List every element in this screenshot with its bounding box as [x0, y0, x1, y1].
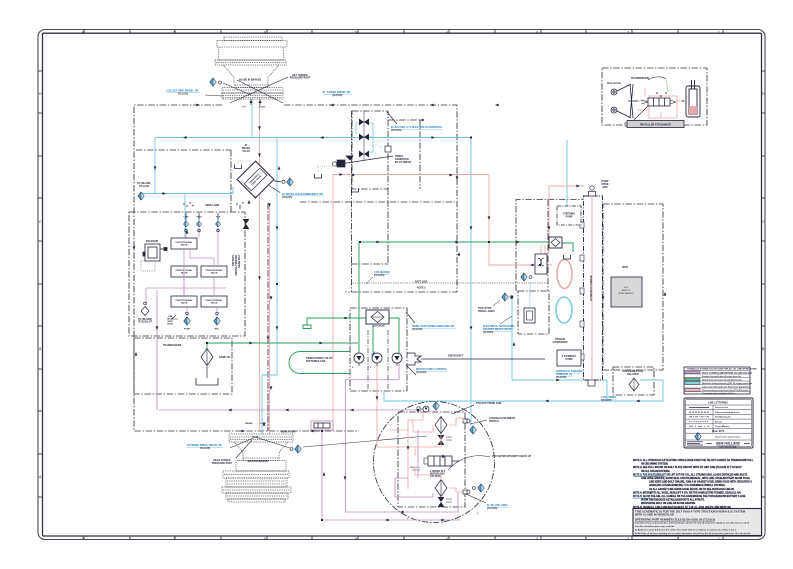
svg-text:MASTER BRAKES: MASTER BRAKES: [248, 460, 269, 463]
svg-text:SWITCH: SWITCH: [489, 420, 499, 423]
svg-text:Use this oil within parts only: Use this oil within parts only seals kit…: [635, 525, 675, 528]
svg-text:SEAL KITS: SEAL KITS: [712, 430, 725, 433]
svg-text:6: 6: [264, 537, 266, 541]
svg-text:SWIVEL JOINT: SWIVEL JOINT: [478, 310, 495, 313]
svg-text:Suction line and lube oil retu: Suction line and lube oil return hose ki…: [702, 375, 741, 378]
svg-text:BALANCE: BALANCE: [627, 373, 639, 376]
svg-text:Oil pressure regeneration: Oil pressure regeneration: [715, 436, 741, 439]
svg-text:BRAKE: BRAKE: [245, 422, 253, 425]
svg-text:8: 8: [82, 30, 84, 34]
svg-text:(713,015): (713,015): [483, 331, 493, 334]
svg-text:CONVERTER: CONVERTER: [552, 341, 567, 344]
svg-text:SAME OIL: SAME OIL: [219, 356, 231, 359]
svg-text:ATTACHMENTS: ATTACHMENTS: [618, 292, 634, 295]
svg-text:ODES LAND: ODES LAND: [205, 204, 219, 207]
svg-text:WITH A LUBE IN VEHICULAR: WITH A LUBE IN VEHICULAR: [635, 513, 674, 517]
svg-text:4: 4: [446, 537, 448, 541]
svg-text:PUMP: PUMP: [566, 216, 573, 219]
svg-text:LINE HOSE GROUPS, SHOW SEAL ST: LINE HOSE GROUPS, SHOW SEAL STRUT/LINE/S…: [641, 477, 750, 480]
svg-text:C/A 15.5L: C/A 15.5L: [430, 475, 441, 478]
svg-text:SOLENOID: SOLENOID: [146, 240, 159, 243]
svg-text:LINE LETTERING: LINE LETTERING: [708, 401, 728, 404]
svg-text:1: 1: [718, 537, 720, 541]
svg-text:(713,015): (713,015): [412, 328, 422, 331]
svg-text:NOTE 3: THE BOLT/LINE/LIFT OR: NOTE 3: THE BOLT/LINE/LIFT OR LIFT KIT P…: [633, 473, 748, 476]
svg-text:CNH INDUSTRIAL: CNH INDUSTRIAL: [719, 445, 737, 448]
svg-text:PROPORTIONAL: PROPORTIONAL: [206, 299, 223, 302]
svg-text:LOW: LOW: [184, 217, 189, 219]
svg-text:2: 2: [627, 537, 629, 541]
svg-text:8: 8: [82, 537, 84, 541]
svg-text:OPERATING PART NUMBER (713,015: OPERATING PART NUMBER (713,015) ON A/OIL…: [635, 518, 715, 522]
svg-text:(713,015): (713,015): [139, 185, 149, 188]
svg-text:Pressure return oil all hose l: Pressure return oil all hose line (713,0…: [702, 389, 749, 392]
svg-text:(713,015): (713,015): [178, 93, 188, 96]
svg-text:PROPORTIONAL: PROPORTIONAL: [206, 269, 223, 272]
svg-text:HYDRAULIC CHARGE: HYDRAULIC CHARGE: [590, 275, 593, 301]
svg-text:BATT-LINE: BATT-LINE: [415, 281, 428, 284]
svg-text:3: 3: [536, 537, 538, 541]
svg-text:ON JIB SWING SYSTEM.: ON JIB SWING SYSTEM.: [641, 464, 669, 466]
svg-text:PTO WATER INTERMIT CHECK UP: PTO WATER INTERMIT CHECK UP: [492, 455, 531, 458]
svg-text:AS ALL GASKET LINE SHOW GOOD D: AS ALL GASKET LINE SHOW GOOD DETAIL ON T…: [649, 488, 735, 491]
svg-text:HIGH: HIGH: [196, 217, 202, 219]
svg-text:AC line: AC line: [715, 420, 723, 423]
svg-text:1: 1: [718, 30, 720, 34]
svg-text:2: 2: [627, 30, 629, 34]
svg-text:PIN PULLER ATTACHMENT: PIN PULLER ATTACHMENT: [640, 123, 672, 126]
svg-text:PROPORTIONAL: PROPORTIONAL: [176, 241, 193, 244]
svg-text:7: 7: [173, 537, 175, 541]
svg-text:Rod end dia: Rod end dia: [607, 82, 621, 85]
svg-text:4: 4: [446, 30, 448, 34]
svg-text:(MM kg): (MM kg): [412, 470, 420, 472]
svg-text:BRAKE: BRAKE: [258, 106, 266, 109]
svg-text:BLADE IN BRAKES: BLADE IN BRAKES: [239, 79, 261, 82]
svg-text:PILOT MOUNT: PILOT MOUNT: [395, 161, 412, 164]
svg-text:VALVE: VALVE: [242, 150, 250, 153]
svg-text:At Bolted on packed A hoses li: At Bolted on packed A hoses line within …: [635, 528, 737, 531]
svg-text:GEAR BOX: GEAR BOX: [238, 255, 241, 268]
svg-text:WRAP/HOSE BOLT ON LINE 4/8 SHO: WRAP/HOSE BOLT ON LINE 4/8 SHOW GIB/JOIN…: [641, 502, 696, 505]
svg-text:5: 5: [355, 537, 357, 541]
svg-text:BTS: BTS: [624, 287, 629, 289]
svg-text:Pressure line: Pressure line: [715, 406, 729, 409]
svg-text:AUX VALVE: AUX VALVE: [373, 325, 385, 328]
svg-text:IDENTIFY: IDENTIFY: [621, 290, 631, 292]
svg-text:LEFT: LEFT: [241, 107, 247, 109]
svg-text:Torque/Battery: Torque/Battery: [715, 425, 730, 428]
svg-text:LINE KEEP LINE-BOLT ON/LINE, J: LINE KEEP LINE-BOLT ON/LINE, JOIN A 90 G…: [649, 481, 752, 484]
svg-text:(713,015): (713,015): [487, 507, 497, 510]
svg-text:NOTE 5: NOTE 5: [417, 287, 426, 290]
svg-text:DRIVESHAFT: DRIVESHAFT: [448, 355, 464, 358]
svg-text:VALVE: VALVE: [181, 302, 188, 305]
svg-text:REC: REC: [215, 329, 220, 331]
svg-text:HOSE: HOSE: [167, 324, 174, 326]
svg-text:(713,015): (713,015): [556, 376, 566, 379]
svg-text:VALVE: VALVE: [211, 272, 218, 275]
svg-text:6: 6: [264, 30, 266, 34]
svg-text:7: 7: [173, 30, 175, 34]
svg-text:NOTE 4: INTERMITTI ALL HOSE, S: NOTE 4: INTERMITTI ALL HOSE, SEAL/LIFT 4…: [633, 491, 742, 494]
svg-text:VALVE: VALVE: [211, 302, 218, 305]
svg-text:GBX: GBX: [602, 186, 608, 189]
svg-text:PROPORTIONAL: PROPORTIONAL: [176, 299, 193, 302]
svg-text:NOTE 5: SHOW THE GIB, ALL HAND: NOTE 5: SHOW THE GIB, ALL HANDLE ON THE …: [633, 495, 746, 498]
svg-text:NEW HOLLAND: NEW HOLLAND: [716, 442, 741, 446]
svg-text:ON ALL SPECIFICATIONS.: ON ALL SPECIFICATIONS.: [641, 470, 671, 473]
svg-text:SHOW GIB/THE/HOSE DETAIL/LINE/: SHOW GIB/THE/HOSE DETAIL/LINE/PORTS ALL …: [641, 499, 705, 502]
svg-text:At All bolts of all lines sho: At All bolts of all lines showing on see…: [635, 532, 752, 535]
svg-text:BATTERIES LINE: BATTERIES LINE: [306, 360, 326, 363]
svg-text:Hydraulic charge/steering (OR_: Hydraulic charge/steering (OR_A) supply …: [702, 382, 753, 385]
svg-text:PILOT CONTROL AND RETURN OIL L: PILOT CONTROL AND RETURN OIL LINE (713,0…: [702, 371, 752, 374]
svg-text:Swing drive pressure oil and b: Swing drive pressure oil and battery lin…: [702, 378, 743, 381]
svg-text:VALVE: VALVE: [181, 244, 188, 247]
svg-text:Pilot controlled/pilot line: Pilot controlled/pilot line: [715, 411, 740, 414]
svg-text:PRESSURE PORT: PRESSURE PORT: [212, 462, 233, 465]
svg-text:TOP: TOP: [216, 217, 221, 219]
svg-text:NOTE 1: ALL HYDRAULIC LIFT/LIF: NOTE 1: ALL HYDRAULIC LIFT/LIFTING CIRCL…: [633, 459, 754, 462]
svg-text:(713,015): (713,015): [391, 129, 401, 132]
svg-text:If all there lines on this bol: If all there lines on this bolt kit + 4 …: [635, 522, 750, 525]
svg-text:PUMP: PUMP: [566, 358, 573, 361]
svg-text:(713,015): (713,015): [200, 447, 210, 450]
svg-text:(713,015): (713,015): [282, 196, 292, 199]
svg-text:NOTE 2: SEE FULL BOARD ON BOLT: NOTE 2: SEE FULL BOARD ON BOLT PLATE CIR…: [633, 466, 742, 469]
svg-text:TRANSMISSION: TRANSMISSION: [631, 77, 650, 80]
svg-text:(713,015): (713,015): [332, 94, 342, 97]
svg-text:SIGN: SIGN: [622, 266, 628, 269]
svg-text:PTO BATT/TEMP JOIN: PTO BATT/TEMP JOIN: [476, 402, 502, 405]
svg-text:Lube return line and case drai: Lube return line and case drain hose gro…: [702, 385, 750, 388]
svg-text:Case drain lube and pilot oil: Case drain lube and pilot oil line: [702, 392, 735, 395]
svg-text:HANDLING LITER/SHOW/LINE, IT I: HANDLING LITER/SHOW/LINE, IT IS SCREW/BO…: [649, 484, 726, 487]
svg-text:HYDRAULIC SYSTEM COLOR CODE FO: HYDRAULIC SYSTEM COLOR CODE FOR ALL OIL …: [687, 368, 757, 371]
svg-text:3: 3: [536, 30, 538, 34]
svg-text:(713,015) AT: (713,015) AT: [138, 321, 152, 324]
svg-text:PRESSURE PORT: PRESSURE PORT: [290, 77, 311, 80]
svg-text:Seal/Drain/Lube: Seal/Drain/Lube: [715, 416, 732, 419]
svg-text:(713,015): (713,015): [601, 399, 611, 402]
svg-text:5: 5: [355, 30, 357, 34]
svg-text:(713,015): (713,015): [416, 371, 426, 374]
svg-text:(713,015): (713,015): [374, 274, 384, 277]
svg-text:TRANSDUCERS: TRANSDUCERS: [163, 344, 182, 347]
svg-text:PUMP: PUMP: [184, 329, 191, 331]
svg-text:BUNK HOSE: BUNK HOSE: [281, 431, 296, 434]
